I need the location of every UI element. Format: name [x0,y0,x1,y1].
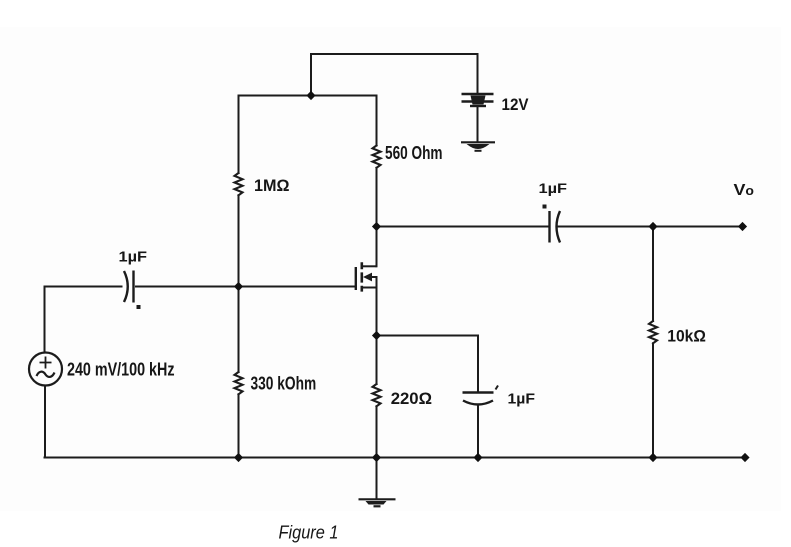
transistor MOSFET [356,262,377,291]
svg-text:1µF: 1µF [539,181,568,196]
node bottom source [372,453,381,462]
wire drain branch upper [376,96,378,146]
label 12V [502,95,530,114]
resistor 220 [373,384,381,406]
svg-text:12V: 12V [502,95,530,114]
svg-text:330 kOhm: 330 kOhm [251,374,317,394]
wire battery to ground [477,107,479,142]
wire source node to 220 [376,336,378,385]
node bottom bypass [473,453,482,462]
ground main [359,499,396,506]
wire bias branch middle [238,195,240,372]
wire battery drop [477,54,479,93]
label 220 Ohm [391,389,432,408]
label 560 Ohm [385,143,443,163]
wire 220 to bottom rail [376,406,378,457]
node bottom bias [234,453,243,462]
wire output drain to cap [377,226,548,228]
resistor 10k [649,321,657,343]
svg-text:560 Ohm: 560 Ohm [385,143,443,163]
svg-text:Vo: Vo [734,182,755,199]
node drain [372,222,381,231]
wire bypass cap to bottom rail [477,406,479,458]
wire load branch lower [652,343,654,457]
wire load branch upper [652,227,654,322]
svg-text:1MΩ: 1MΩ [254,176,290,195]
resistor 1M [235,173,243,195]
capacitor bypass 1uF [463,386,499,405]
node top rail junction [306,91,315,100]
label 1uF input [119,249,148,266]
node source [372,331,381,340]
wire VDD rail [239,95,377,97]
svg-text:240 mV/100 kHz: 240 mV/100 kHz [67,359,175,379]
label 330 kOhm [251,374,317,394]
wire input left [45,286,122,288]
ac source 240mV/100kHz [29,353,62,386]
label 1uF bypass [508,391,536,408]
wire bias branch upper [238,96,240,174]
node gate [234,282,243,291]
label 240 mV/100 kHz [67,359,175,379]
node bottom load [648,453,657,462]
capacitor output 1uF [543,205,561,243]
svg-text:Figure 1: Figure 1 [279,522,339,542]
battery 12V [462,94,494,106]
resistor 560 [373,146,381,168]
capacitor input 1uF [124,271,141,310]
wire top rail drop to gate-bias rail [310,54,312,96]
wire gate lead [239,286,356,288]
resistor 330k [235,372,243,394]
node output junction [648,222,657,231]
node bottom right terminal [740,453,749,462]
wire bottom rail to ground [376,458,378,499]
wire bias branch lower [238,394,240,457]
svg-text:220Ω: 220Ω [391,389,432,408]
label 1M Ohm [254,176,290,195]
wire top rail [311,53,478,55]
label 1uF output [539,181,568,196]
wire source lead down [376,277,378,336]
svg-text:10kΩ: 10kΩ [667,328,706,346]
svg-text:1µF: 1µF [119,249,148,266]
label 10k Ohm [667,328,706,346]
wire input cap to gate node [136,286,239,288]
wire left rail upper [44,287,46,353]
node Vo terminal [738,222,747,231]
wire bottom rail [45,457,746,459]
label Vo [734,182,755,199]
wire source to bypass branch [377,336,479,393]
wire left rail lower [44,386,46,458]
svg-text:1µF: 1µF [508,391,536,408]
ground battery [461,142,495,151]
wire output cap to Vo [559,226,743,228]
label Figure 1 caption [279,522,339,542]
wire drain branch to transistor [376,168,378,266]
